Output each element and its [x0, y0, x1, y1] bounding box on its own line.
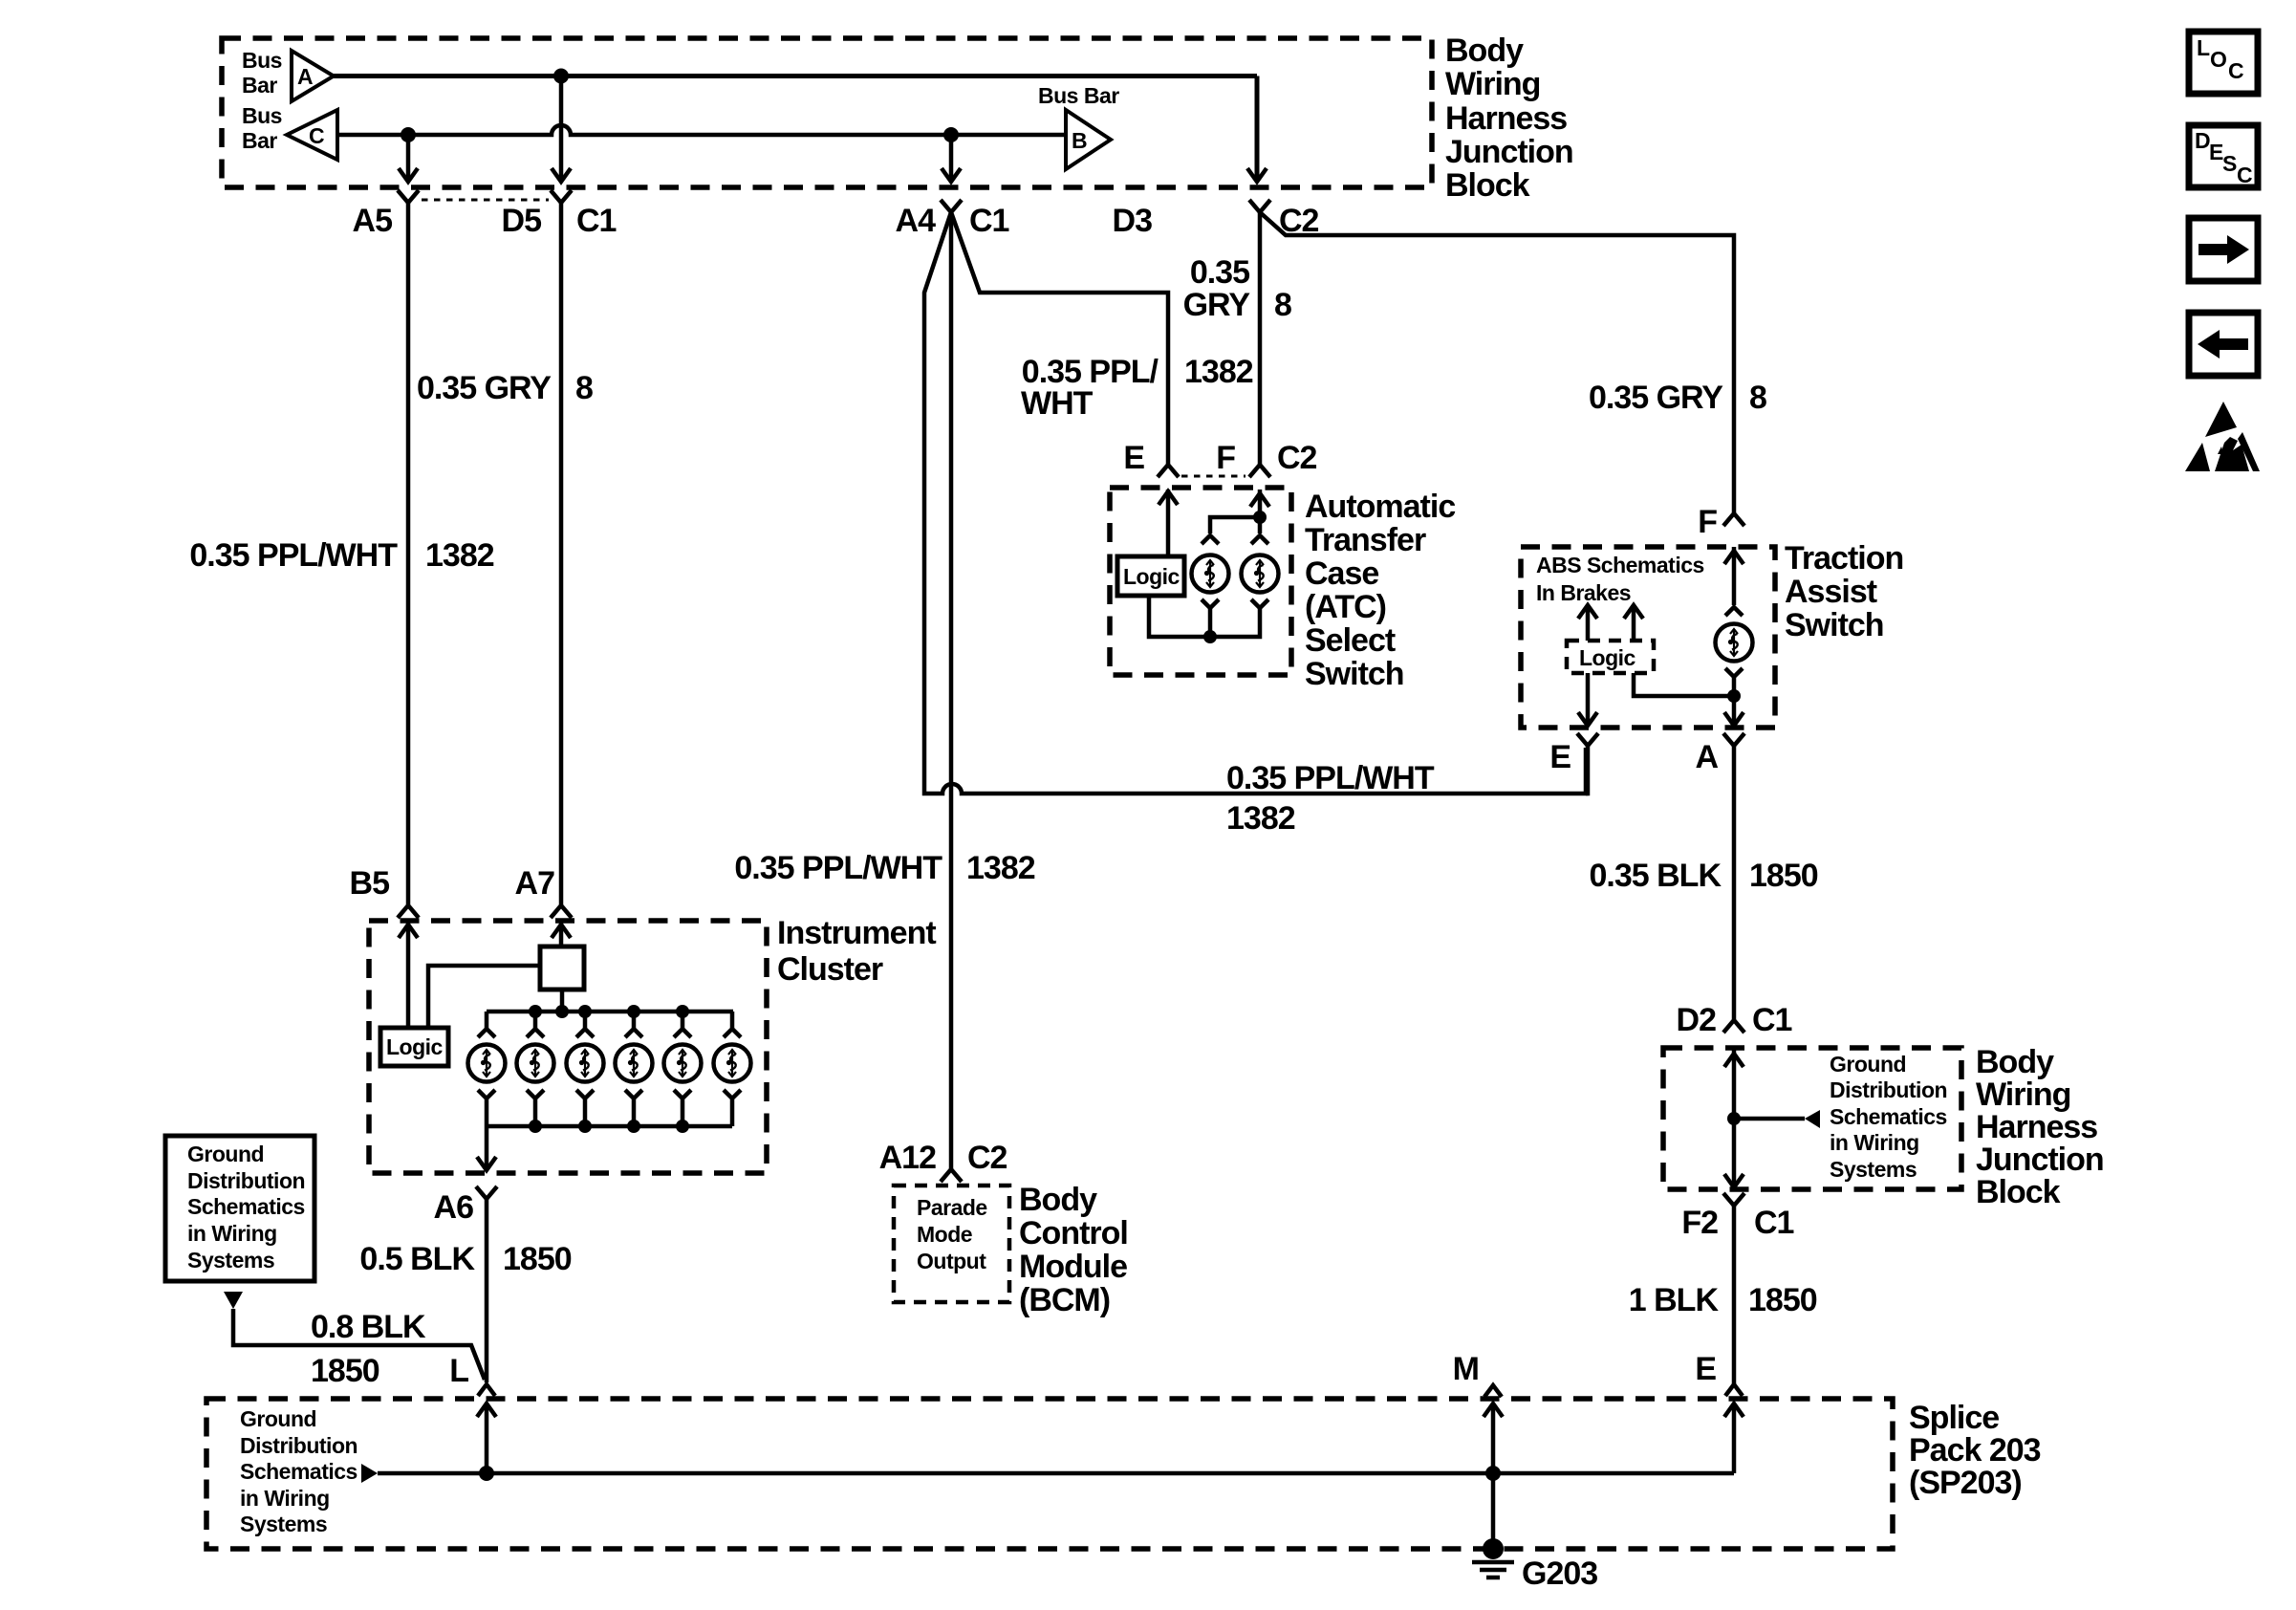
svg-text:Schematics: Schematics — [187, 1194, 305, 1219]
svg-text:1850: 1850 — [311, 1353, 379, 1389]
wire F entry arrow into traction lamp — [1724, 547, 1744, 605]
label Bus Bar (C) — [242, 103, 282, 153]
svg-text:Block: Block — [1445, 167, 1530, 204]
junction dot at M — [1485, 1466, 1501, 1481]
bus bar A triangle — [292, 51, 334, 101]
wire bus A corner drop to D3 with down arrow — [1247, 76, 1267, 183]
connector A7 (instrument cluster) — [515, 865, 572, 918]
connector A below traction box — [1695, 733, 1744, 775]
svg-text:A12: A12 — [879, 1140, 936, 1176]
svg-text:Module: Module — [1019, 1249, 1127, 1285]
Ground Distribution Schematics in Wiring Systems solid box (left) — [165, 1136, 314, 1281]
svg-text:Systems: Systems — [187, 1248, 274, 1273]
svg-text:0.35 PPL/WHT: 0.35 PPL/WHT — [189, 537, 398, 574]
connector B5 (instrument cluster) — [350, 865, 419, 918]
wire E entry arrow into ATC logic — [1159, 490, 1178, 556]
svg-text:(SP203): (SP203) — [1909, 1465, 2022, 1501]
dashed connector tie E-F (ATC) — [1181, 475, 1245, 478]
bus bar C triangle — [287, 110, 337, 160]
lamp (ATC indicator 1) — [1192, 555, 1229, 593]
label Ground Distribution Schematics in Wiring Systems (inside right box) — [1830, 1052, 1947, 1182]
svg-text:Systems: Systems — [240, 1512, 327, 1536]
cluster lamp column 3 — [567, 1012, 604, 1126]
wire F2 exit arrow (right box) — [1724, 1119, 1744, 1187]
wire A4 left branch down and across to traction switch E — [924, 212, 1586, 794]
svg-text:1382: 1382 — [425, 537, 494, 574]
icon LOC box — [2189, 32, 2258, 94]
wire driver to lamp bus — [560, 990, 565, 1012]
svg-text:E: E — [1695, 1351, 1716, 1387]
svg-text:0.35: 0.35 — [1190, 254, 1249, 291]
wire lamp bottom bus — [487, 1124, 732, 1129]
svg-text:Bar: Bar — [242, 128, 277, 153]
wire driver to logic — [428, 966, 540, 1028]
wire label 0.35 PPL/WHT 1382 (BCM wire) — [734, 850, 1034, 886]
svg-text:M: M — [1453, 1351, 1479, 1387]
svg-text:D: D — [2195, 128, 2210, 153]
svg-text:Junction: Junction — [1445, 134, 1573, 170]
driver block square (instrument cluster) — [540, 946, 584, 990]
svg-text:Wiring: Wiring — [1976, 1077, 2070, 1113]
wire D5 vertical to instrument cluster A7 — [559, 203, 564, 904]
connector A12/C2 (BCM) — [879, 1140, 1007, 1182]
connector F2/C1 — [1681, 1193, 1793, 1241]
junction dot on bus C at A4 — [943, 127, 959, 142]
wire bus C horizontal with hop over D5 wire — [337, 125, 1066, 135]
svg-text:Body: Body — [1019, 1182, 1097, 1218]
wire A4 center vertical to BCM A12 — [949, 212, 954, 1168]
label Body Control Module (BCM) — [1019, 1182, 1128, 1318]
connector A4/C1 (X) — [896, 200, 1009, 239]
label Traction Assist Switch — [1785, 540, 1903, 643]
svg-text:Distribution: Distribution — [240, 1433, 357, 1458]
svg-text:Switch: Switch — [1785, 607, 1884, 643]
svg-text:E: E — [1123, 440, 1144, 476]
svg-text:C2: C2 — [967, 1140, 1007, 1176]
splice pack bus with reference arrow — [361, 1464, 1734, 1483]
junction dot on bus C at A5 — [401, 127, 416, 142]
wire A6 vertical to splice pack L — [485, 1199, 489, 1382]
icon ESD warning symbol — [2185, 402, 2260, 471]
svg-text:F: F — [1698, 504, 1717, 540]
svg-text:0.35 GRY: 0.35 GRY — [1589, 380, 1723, 416]
lamp (traction assist indicator) — [1716, 624, 1753, 662]
svg-text:1382: 1382 — [966, 850, 1035, 886]
wire label 0.35 PPL/WHT 1382 (horizontal run) — [1226, 760, 1435, 837]
Splice Pack 203 dashed box — [206, 1399, 1893, 1549]
wire label 0.35 PPL/WHT 1382 (A5 wire) — [189, 537, 493, 574]
svg-text:GRY: GRY — [1183, 287, 1251, 323]
svg-text:F: F — [1216, 440, 1235, 476]
wire label 0.35 GRY 8 (D5 wire) — [417, 370, 593, 406]
label Ground Distribution Schematics in Wiring Systems (inside splice pack) — [240, 1406, 357, 1536]
junction dot (ATC F branch) — [1253, 511, 1267, 524]
icon forward arrow box — [2189, 218, 2258, 281]
cluster lamp column 6 — [714, 1012, 751, 1126]
dashed connector tie A5-D5 — [422, 199, 549, 202]
svg-text:Distribution: Distribution — [1830, 1077, 1947, 1102]
svg-text:Traction: Traction — [1785, 540, 1903, 577]
svg-text:1382: 1382 — [1226, 800, 1295, 837]
svg-text:1850: 1850 — [1748, 1282, 1817, 1318]
logic box (instrument cluster) — [380, 1028, 448, 1066]
svg-text:O: O — [2210, 47, 2226, 72]
connector D5/C1 (Y) — [502, 190, 617, 239]
wire bus A horizontal — [334, 74, 1257, 78]
lamp (ATC indicator 2) — [1242, 555, 1279, 593]
svg-text:In Brakes: In Brakes — [1536, 580, 1631, 605]
svg-text:Body: Body — [1976, 1044, 2054, 1080]
connector Y below traction lamp — [1725, 668, 1743, 677]
connector caret above ATC lamp 2 — [1251, 535, 1268, 544]
wire G203 drop — [1491, 1473, 1496, 1547]
svg-text:E: E — [2209, 140, 2223, 164]
svg-text:Logic: Logic — [386, 1034, 444, 1059]
svg-text:G203: G203 — [1522, 1556, 1597, 1592]
svg-text:Transfer: Transfer — [1305, 522, 1426, 558]
logic dashed box (traction) — [1567, 641, 1654, 673]
svg-text:Schematics: Schematics — [1830, 1104, 1947, 1129]
svg-text:C: C — [309, 123, 324, 148]
svg-text:0.35 GRY: 0.35 GRY — [417, 370, 552, 406]
svg-text:Logic: Logic — [1579, 645, 1636, 670]
wire A5 vertical to instrument cluster B5 — [406, 203, 411, 904]
svg-text:E: E — [1549, 739, 1570, 775]
svg-text:Ground: Ground — [187, 1142, 264, 1166]
wire ATC lamp commons to logic — [1149, 596, 1260, 637]
connector A5 (Y) below junction block — [353, 190, 419, 239]
wire A7 entry arrow to driver block — [552, 921, 571, 946]
wire D5 drop inside box with down arrow — [552, 76, 571, 183]
svg-text:0.35 PPL/WHT: 0.35 PPL/WHT — [734, 850, 942, 886]
svg-text:Schematics: Schematics — [240, 1459, 357, 1484]
svg-text:Logic: Logic — [1123, 564, 1180, 589]
junction dot on bus A at D5 — [553, 69, 569, 84]
svg-text:Distribution: Distribution — [187, 1168, 305, 1193]
svg-text:Wiring: Wiring — [1445, 66, 1540, 102]
wire A6 exit arrow — [477, 1126, 496, 1170]
svg-text:D3: D3 — [1113, 203, 1153, 239]
junction dot at L — [479, 1466, 494, 1481]
svg-text:C: C — [2228, 58, 2243, 83]
label ABS Schematics In Brakes — [1536, 553, 1704, 605]
wire M entry arrow inside splice pack — [1484, 1403, 1503, 1473]
wire arrows up to ABS logic (right) — [1624, 605, 1643, 641]
svg-text:C2: C2 — [1277, 440, 1317, 476]
connector F/C2 (ATC) — [1216, 440, 1316, 477]
wire label 0.35 PPL/ WHT 1382 (ATC E wire) — [1021, 354, 1253, 422]
connector Y below ATC lamp 2 — [1251, 599, 1268, 608]
logic box (ATC) — [1117, 556, 1184, 596]
wire traction lamp to logic and A exit — [1634, 673, 1734, 696]
svg-text:1 BLK: 1 BLK — [1629, 1282, 1720, 1318]
label Splice Pack 203 (SP203) — [1909, 1400, 2041, 1501]
svg-text:0.35 BLK: 0.35 BLK — [1590, 858, 1722, 894]
wire A4 drop inside box with down arrow — [942, 135, 961, 182]
wire D3 vertical to ATC F — [1258, 212, 1263, 464]
icon back arrow box — [2189, 313, 2258, 376]
connector D2/C1 — [1677, 1002, 1792, 1038]
junction dot (right box) — [1727, 1112, 1741, 1125]
svg-text:Instrument: Instrument — [777, 915, 936, 951]
svg-text:Mode: Mode — [917, 1222, 972, 1247]
wire A5 drop inside box with down arrow — [399, 135, 418, 182]
cluster lamp column 4 — [616, 1012, 653, 1126]
svg-text:1382: 1382 — [1184, 354, 1253, 390]
wire 0.8 BLK to L — [233, 1309, 485, 1380]
connector F (traction assist) — [1698, 504, 1744, 540]
connector M (caret) — [1453, 1351, 1502, 1397]
wire arrows up to ABS logic (left) — [1578, 605, 1597, 641]
connector Y below ATC lamp 1 — [1202, 599, 1219, 608]
Traction Assist Switch dashed box — [1521, 547, 1775, 728]
svg-text:Bus: Bus — [242, 103, 282, 128]
svg-text:Harness: Harness — [1445, 100, 1567, 137]
junction dots on lamp bottom bus — [529, 1120, 689, 1133]
svg-text:Switch: Switch — [1305, 656, 1404, 692]
svg-text:C: C — [2237, 163, 2252, 187]
wire E entry arrow inside splice pack — [1724, 1403, 1744, 1473]
svg-text:0.35 PPL/WHT: 0.35 PPL/WHT — [1226, 760, 1435, 796]
bus bar B triangle — [1066, 110, 1111, 169]
svg-text:C1: C1 — [1752, 1002, 1792, 1038]
svg-text:Parade: Parade — [917, 1195, 987, 1220]
label Body Wiring Harness Junction Block — [1445, 33, 1573, 204]
junction dot (ATC lamp common) — [1203, 630, 1217, 643]
svg-text:Harness: Harness — [1976, 1109, 2097, 1145]
svg-text:0.5 BLK: 0.5 BLK — [359, 1241, 475, 1277]
svg-text:Body: Body — [1445, 33, 1524, 69]
svg-text:Bus Bar: Bus Bar — [1038, 83, 1119, 108]
svg-text:in Wiring: in Wiring — [240, 1486, 330, 1511]
wire L entry arrow inside splice pack — [477, 1403, 496, 1473]
svg-text:A5: A5 — [353, 203, 393, 239]
wire A (traction) vertical to D2 — [1732, 746, 1737, 1019]
wire E (traction) stem to horizontal run — [1586, 746, 1588, 794]
junction dots on lamp top bus — [529, 1005, 689, 1018]
svg-text:Splice: Splice — [1909, 1400, 1999, 1436]
svg-text:Block: Block — [1976, 1174, 2061, 1210]
svg-text:Control: Control — [1019, 1215, 1128, 1251]
svg-text:Pack 203: Pack 203 — [1909, 1432, 2041, 1469]
svg-text:C1: C1 — [969, 203, 1009, 239]
cluster lamp column 2 — [517, 1012, 554, 1126]
filled arrow below ground distribution box — [224, 1292, 243, 1309]
svg-text:Bar: Bar — [242, 73, 277, 98]
wire reference arrow to ground distribution (right box) — [1734, 1110, 1820, 1128]
svg-text:Bus: Bus — [242, 48, 282, 73]
svg-text:1850: 1850 — [1749, 858, 1818, 894]
wire label 0.35 GRY 8 (ATC F wire) — [1183, 254, 1291, 323]
svg-text:Ground: Ground — [240, 1406, 316, 1431]
Body Wiring Harness Junction Block (right) dashed box — [1663, 1048, 1961, 1189]
connector L (caret) — [449, 1353, 495, 1396]
icon DESC box — [2189, 125, 2258, 187]
svg-text:0.8 BLK: 0.8 BLK — [311, 1309, 426, 1345]
svg-text:A: A — [297, 64, 313, 89]
label Body Wiring Harness Junction Block (right) — [1976, 1044, 2104, 1210]
svg-text:8: 8 — [1749, 380, 1766, 416]
svg-text:1850: 1850 — [503, 1241, 572, 1277]
svg-text:Systems: Systems — [1830, 1157, 1917, 1182]
connector E (caret) — [1695, 1351, 1743, 1396]
wire label 0.8 BLK 1850 — [311, 1309, 426, 1389]
svg-text:D2: D2 — [1677, 1002, 1717, 1038]
cluster lamp column 1 — [468, 1012, 506, 1126]
svg-text:Ground: Ground — [1830, 1052, 1906, 1077]
Automatic Transfer Case (ATC) Select Switch dashed box — [1110, 488, 1291, 675]
svg-text:WHT: WHT — [1021, 385, 1094, 422]
svg-text:A7: A7 — [515, 865, 555, 902]
svg-text:B: B — [1072, 128, 1087, 153]
svg-text:A6: A6 — [434, 1189, 474, 1226]
svg-text:Select: Select — [1305, 622, 1396, 659]
svg-text:L: L — [2197, 35, 2210, 60]
wire label 1 BLK 1850 — [1629, 1282, 1817, 1318]
svg-text:D5: D5 — [502, 203, 542, 239]
svg-text:A: A — [1695, 739, 1718, 775]
cluster lamp column 5 — [664, 1012, 702, 1126]
svg-text:L: L — [449, 1353, 468, 1389]
svg-text:8: 8 — [575, 370, 593, 406]
svg-text:ABS Schematics: ABS Schematics — [1536, 553, 1704, 577]
Instrument Cluster dashed box — [369, 921, 767, 1173]
svg-text:Automatic: Automatic — [1305, 489, 1455, 525]
svg-text:Assist: Assist — [1785, 574, 1877, 610]
label Bus Bar (A) — [242, 48, 282, 98]
connector caret above traction lamp — [1725, 607, 1743, 616]
svg-text:in Wiring: in Wiring — [1830, 1130, 1919, 1155]
wire F2 vertical to splice pack E — [1732, 1206, 1737, 1384]
wire label 0.5 BLK 1850 — [359, 1241, 571, 1277]
wire D2 entry arrow inside right box — [1724, 1048, 1744, 1119]
svg-text:S: S — [2222, 151, 2237, 176]
wire B5 entry arrow to logic — [399, 921, 418, 1028]
wire label 0.35 GRY 8 (traction F wire) — [1589, 380, 1766, 416]
svg-text:Output: Output — [917, 1249, 986, 1273]
wire A4 right branch to ATC E — [951, 212, 1168, 464]
svg-text:Case: Case — [1305, 555, 1378, 592]
svg-text:(ATC): (ATC) — [1305, 589, 1386, 625]
svg-text:(BCM): (BCM) — [1019, 1282, 1110, 1318]
connector E below traction box — [1549, 733, 1598, 775]
wire A exit arrow (traction) — [1724, 696, 1744, 726]
svg-text:F2: F2 — [1681, 1205, 1718, 1241]
wire label 0.35 BLK 1850 — [1590, 858, 1818, 894]
svg-text:C1: C1 — [1754, 1205, 1794, 1241]
label Instrument Cluster — [777, 915, 936, 988]
wire F entry arrow into lamp pair — [1210, 490, 1260, 533]
ground G203 symbol — [1472, 1538, 1597, 1592]
label Automatic Transfer Case (ATC) Select Switch — [1305, 489, 1455, 692]
svg-text:B5: B5 — [350, 865, 390, 902]
wire D3 branch across to traction switch F — [1260, 212, 1734, 512]
Body Wiring Harness Junction Block (top) dashed box — [222, 38, 1432, 187]
junction dot (traction lamp common) — [1727, 689, 1741, 703]
wire E exit arrow (traction) — [1578, 673, 1597, 726]
svg-text:8: 8 — [1274, 287, 1291, 323]
svg-text:Cluster: Cluster — [777, 951, 883, 988]
connector caret above ATC lamp 1 — [1202, 535, 1219, 544]
svg-text:in Wiring: in Wiring — [187, 1221, 277, 1246]
connector D3/C2 (X) — [1113, 200, 1319, 239]
connector E (ATC) — [1123, 440, 1179, 477]
svg-text:C1: C1 — [576, 203, 617, 239]
svg-text:Junction: Junction — [1976, 1142, 2104, 1178]
svg-text:A4: A4 — [896, 203, 937, 239]
connector A6 below cluster — [434, 1186, 497, 1226]
Parade Mode Output dashed box (BCM) — [894, 1186, 1009, 1302]
wire lamp top bus — [487, 1010, 733, 1014]
